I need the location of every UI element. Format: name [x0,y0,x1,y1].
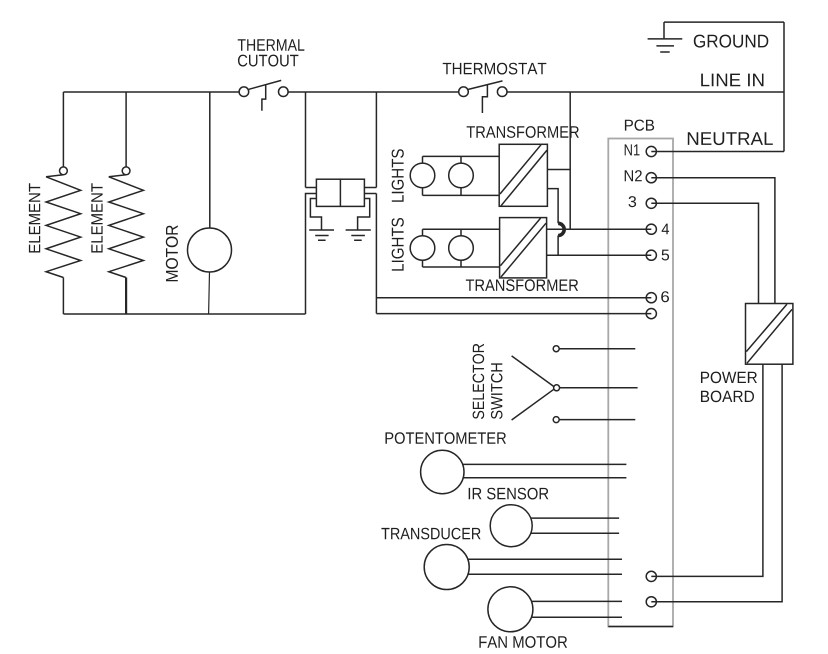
terminal PB1 [646,571,656,581]
ground symbol (filter right) [346,230,371,240]
wire ground to riser [664,21,784,23]
resistor ELEMENT 1 zigzag [46,175,81,278]
terminal N2 [646,173,656,183]
transformer T1 diagonal 2 [501,150,547,206]
wire PB1 to power board bottom [651,364,763,576]
label IR SENSOR [469,488,549,500]
label 6 [661,291,669,302]
wire selector pole top [556,348,635,350]
wire lights2 bottom rail [423,266,500,268]
lamp LIGHTS2 bulb B [449,236,474,261]
label LIGHTS lower (rotated) [392,218,404,271]
wire selector pole middle [557,387,638,389]
filter box [316,179,364,206]
label MOTOR (rotated) [166,225,178,281]
wire lights1 top stubs [423,156,462,163]
label POWER BOARD line1 [701,372,757,384]
transformer T1 diagonal 1 [500,145,541,194]
label THERMAL CUTOUT line2 [238,55,298,67]
terminal PB2 [646,597,656,607]
terminal 4 [646,224,656,234]
ground symbol (mains) [648,39,683,52]
wire ground symbol stem [663,22,665,39]
transducer body [424,545,469,590]
wire PB2 to power board bottom [651,364,782,602]
filter box divider [339,179,341,206]
wire filter right feed stub [364,187,376,189]
wire N1 to neutral riser [651,151,784,153]
label GROUND [694,35,769,48]
label LINE IN [701,74,763,87]
resistor ELEMENT 1 terminal circle [60,167,68,175]
label 5 [662,250,670,261]
wire lights1 top rail [423,155,500,157]
label PCB [625,120,654,131]
transformer T2 diagonal 1 [500,218,540,266]
label ELEMENT left (rotated) [29,183,40,252]
terminal 3 [646,198,656,208]
wire top rail middle segment [288,91,459,93]
lamp LIGHTS2 bulb A [410,236,435,261]
label POTENTOMETER [385,432,506,444]
wire filter right feed vertical to top rail [375,92,377,188]
IR sensor body [490,505,532,547]
resistor ELEMENT 2 terminal circle [122,167,130,175]
switch THERMOSTAT lever [468,81,502,90]
wire fan motor leads [510,601,622,617]
wire N2 to power board top [651,178,775,304]
selector contact top [553,346,559,352]
wire T1 lower output continues to node 5 rail [557,236,559,256]
label POWER BOARD line2 [701,391,754,403]
switch THERMAL CUTOUT lever [249,80,281,89]
wire filter left feed stub [306,187,317,189]
wire filter left return stub and drop to bottom rail [306,194,317,315]
wire filter right earth bracket [358,199,370,231]
lamp LIGHTS1 bulb B [449,163,474,188]
switch SELECTOR lower throw [512,389,554,420]
wire element2 top drop [125,92,127,167]
wire T1 lower output pin [547,189,558,224]
switch THERMAL CUTOUT right contact [279,87,289,97]
wire element1 top drop [62,92,64,167]
label FAN MOTOR [479,636,567,648]
resistor ELEMENT 2 zigzag [109,175,144,278]
wire node 6 rail [376,297,651,299]
wire node 4 (T2 upper pin to PCB terminal 4) [547,228,652,230]
lamp LIGHTS1 bulb A [410,163,435,188]
potentiometer body [421,450,464,493]
wire top rail left segment [63,91,239,93]
wire motor bottom drop [208,272,211,314]
transformer T1 box [499,144,547,206]
wire terminal 3 to power board top [651,203,758,303]
PCB bottom edge wire [608,626,673,628]
label N1 [625,144,640,155]
wire element1 bottom drop [62,278,64,315]
label ELEMENT right (rotated) [91,183,102,252]
wire lights2 top rail [423,228,500,230]
wire lights2 top stubs [423,229,462,236]
terminal 6 [646,293,656,303]
wire top rail right segment [507,91,784,93]
wire lights2 bottom stubs [423,260,462,267]
selector contact bottom [553,417,559,423]
label THERMOSTAT [443,63,547,75]
label SWITCH (rotated) [491,363,503,419]
wire thermostat drop to node 4 rail [569,92,571,229]
power board diagonal 2 [747,309,792,363]
wire T1 upper output pin [547,169,570,171]
selector contact middle [554,385,560,391]
wire lights1 bottom rail [423,194,500,196]
switch THERMAL CUTOUT left contact [239,87,249,97]
terminal 5 [646,250,656,260]
label TRANSDUCER [381,528,480,540]
label THERMAL CUTOUT line1 [238,39,305,51]
switch SELECTOR upper throw [512,356,554,387]
wire filter left earth bracket [310,199,321,231]
wire selector pole bottom [556,419,635,421]
wire potentiometer leads [442,464,626,477]
terminal 7 [646,309,656,319]
label NEUTRAL [688,132,773,145]
wire lights-section left rail [375,194,377,314]
wire node 7 rail [376,313,651,315]
terminal N1 [646,146,656,156]
switch THERMOSTAT left contact [459,87,469,97]
label 4 [662,224,669,235]
wire element2 bottom drop (bold) [125,278,127,315]
ground symbol (filter left) [309,230,334,240]
wire transducer leads [447,559,622,574]
wire filter left feed vertical [305,92,307,188]
motor MOTOR circle [188,228,232,272]
switch THERMAL CUTOUT actuator jog [262,85,266,111]
wire motor top drop [209,92,211,228]
transformer T2 box [500,218,547,278]
wire node 5 (T2 lower pin to PCB terminal 5) [547,254,652,256]
label TRANSFORMER lower [466,279,578,291]
PCB board outline [608,139,673,627]
wire IR sensor leads [511,518,619,533]
wire neutral riser [783,22,785,151]
label LIGHTS upper (rotated) [392,149,404,202]
wire bottom rail of left loop [63,313,305,315]
wire hop (crossover jump) [558,223,564,235]
wire lights1 bottom stubs [423,187,462,195]
transformer T2 diagonal 2 [501,223,546,277]
label N2 [625,170,642,181]
power board diagonal 1 [746,304,787,351]
switch THERMOSTAT actuator jog [482,85,487,113]
label TRANSFORMER upper [467,126,579,138]
fan motor body [488,587,533,632]
label SELECTOR (rotated) [473,344,485,419]
label 3 [629,196,637,207]
switch THERMOSTAT right contact [497,87,507,97]
power board box [746,304,793,365]
wire filter right return stub [364,193,376,195]
